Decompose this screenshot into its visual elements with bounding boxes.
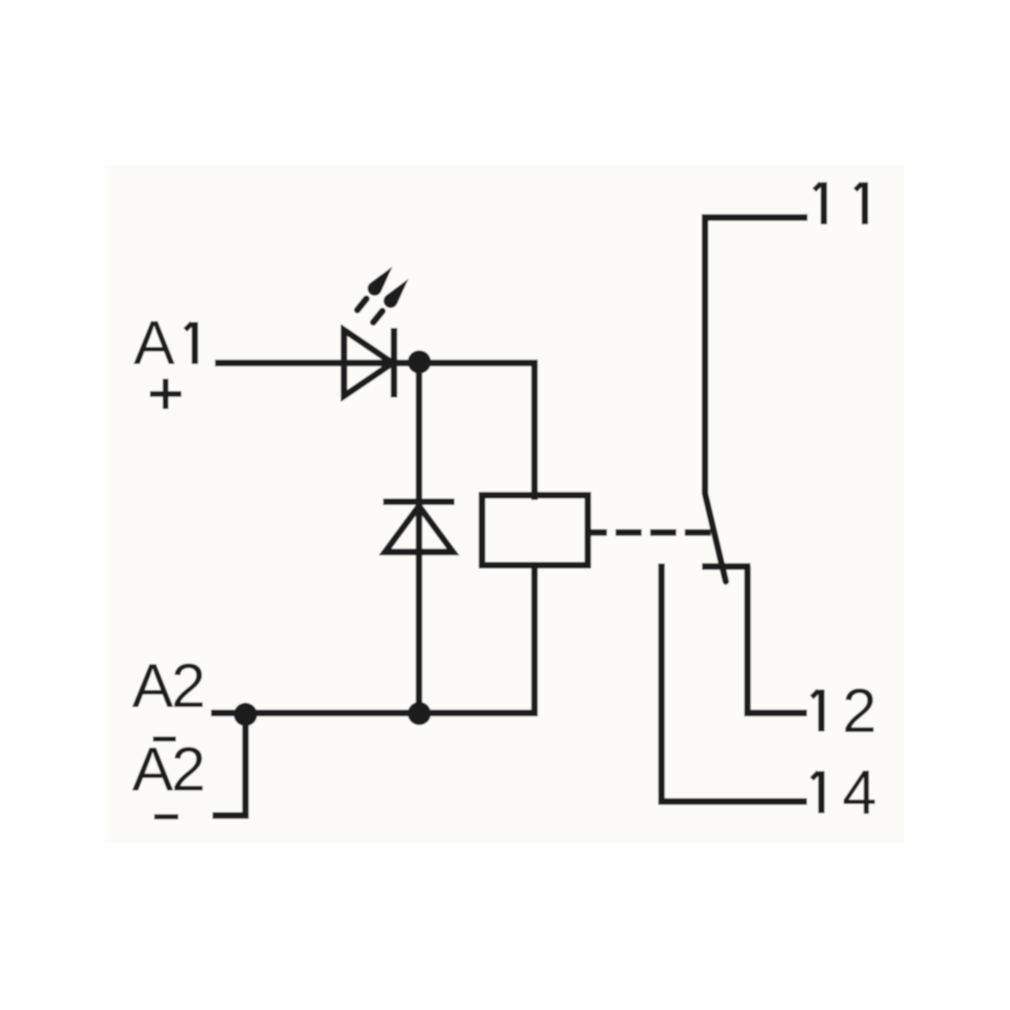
macron over A2-bar	[153, 737, 176, 742]
wire A1 to coil top	[215, 363, 535, 500]
digit 1a of 11	[814, 182, 824, 224]
contact 12 bar	[702, 563, 751, 569]
LED emission arrow 2	[368, 274, 414, 326]
digit 1 of 14	[812, 771, 822, 813]
svg-text:2: 2	[842, 677, 876, 746]
digit 1b of 11	[855, 182, 865, 224]
freewheel diode D2 triangle	[385, 506, 453, 552]
LED D1 cathode bar	[391, 328, 397, 398]
svg-text:A2: A2	[132, 736, 206, 805]
scan area background	[105, 165, 904, 843]
wire to terminal 14	[662, 564, 808, 802]
digit 1 of A1	[185, 322, 195, 364]
plus sign under A1	[150, 379, 181, 409]
freewheel diode D2 cathode bar	[383, 499, 454, 505]
relay coil K1	[482, 495, 588, 565]
LED D1 triangle	[344, 330, 393, 396]
junction node top (LED cathode)	[408, 350, 431, 373]
switch arm	[705, 494, 726, 582]
svg-text:A2: A2	[132, 652, 206, 721]
mechanical link dashed line	[589, 529, 712, 535]
wire to terminal 11	[705, 218, 808, 494]
wire branch through freewheel diode	[416, 363, 422, 714]
svg-text:4: 4	[842, 758, 876, 827]
junction node diode bottom	[408, 702, 431, 725]
coil bottom wire to A2 rail	[211, 562, 535, 713]
digit 1 of 12	[812, 690, 822, 732]
junction node A2	[234, 703, 257, 726]
minus sign	[154, 814, 178, 819]
wire to terminal 12	[748, 567, 808, 714]
wire A2-bar branch	[213, 713, 246, 816]
LED emission arrow 1	[352, 262, 398, 314]
svg-text:A: A	[134, 309, 176, 378]
